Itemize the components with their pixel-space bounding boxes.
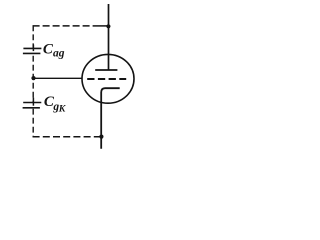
wire (anode lead) [108,4,110,70]
capacitor C_ag [23,47,41,49]
wire (top dashed wire from grid branch to anode lead) [33,25,90,27]
wire (lead stub through C_ag top plate) [32,45,34,52]
wire (left dashed wire upper segment) [32,25,34,47]
wire (left dashed wire lower segment) [32,109,34,137]
wire (bottom dashed wire from left wire to cathode lead) [33,136,102,138]
node (junction of bottom dashed wire with cathode lead) [99,135,103,139]
wire (grid lead from junction to tube envelope) [34,77,83,79]
wire (lead stub through C_gK top plate) [32,98,34,106]
grid (dashed electrode) of V1 [87,78,126,80]
capacitor C_gK [23,102,41,104]
wire (left dashed wire middle segment) [32,56,34,103]
cathode of V1 with cathode lead [101,88,120,149]
node (junction of grid lead with left dashed wire) [31,76,35,80]
svg-text:ag: ag [53,48,65,60]
anode (plate bar) of V1 [95,69,117,71]
triode V1 envelope [82,54,134,103]
node (junction of top dashed wire with anode lead) [106,24,110,28]
